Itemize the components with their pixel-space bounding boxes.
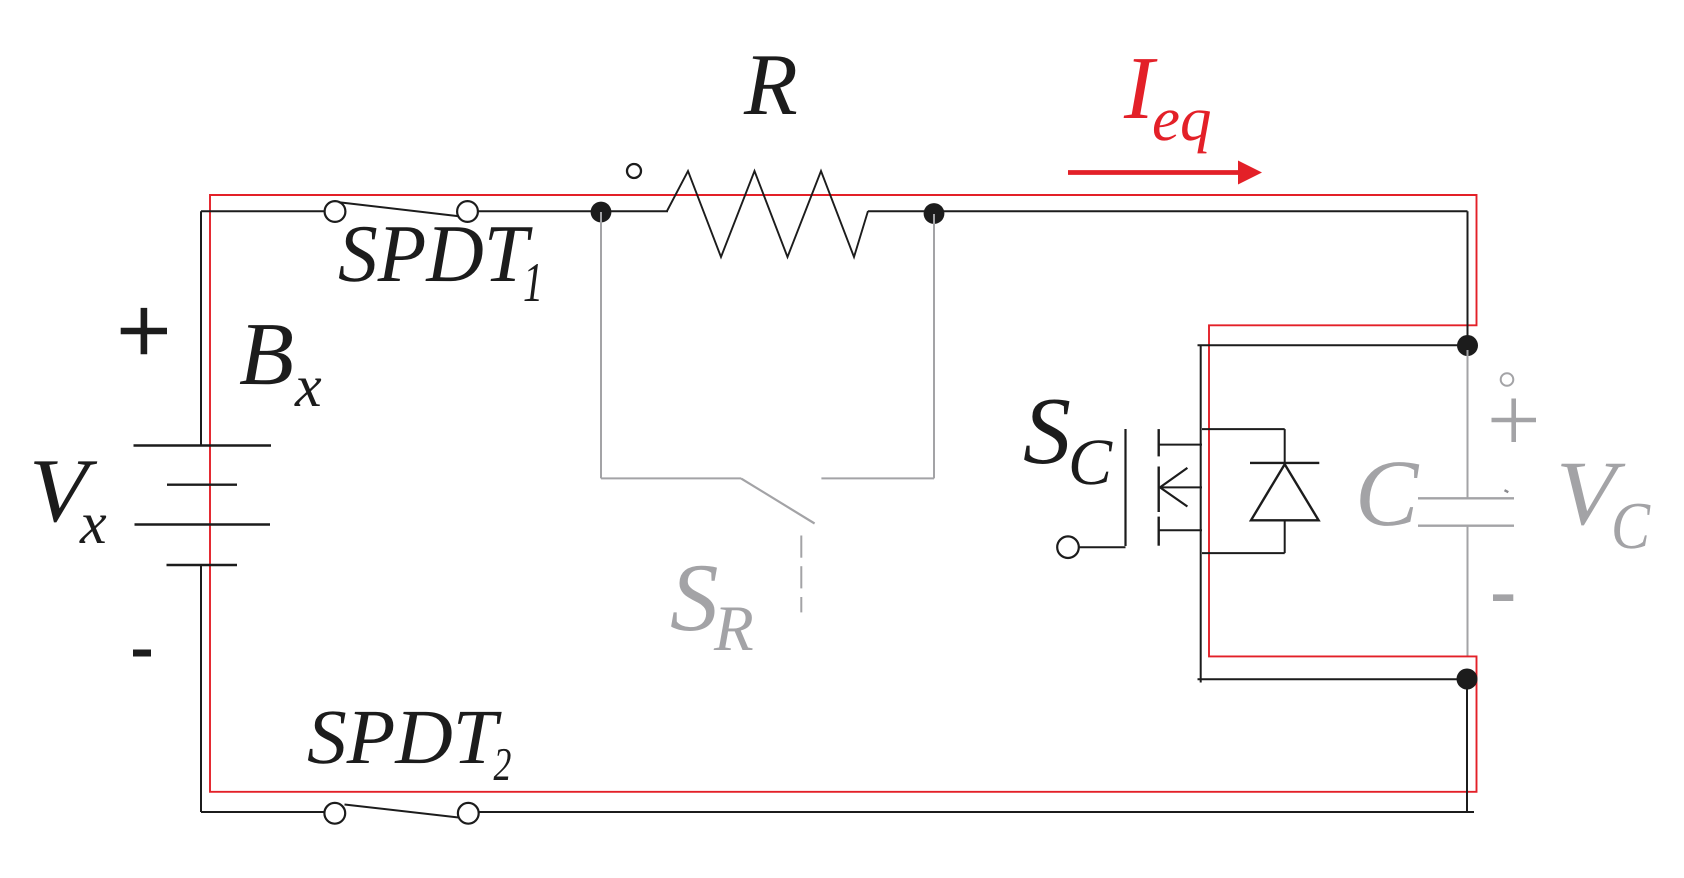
switch SPDT1 throw contact [457, 201, 478, 222]
wire SPDT1 to resistor [478, 210, 668, 212]
resistor R [667, 171, 868, 257]
mosfet SC channel segment bottom [1157, 517, 1159, 546]
svg-text:SPDT: SPDT [307, 693, 502, 780]
switch SPDT1 blade [339, 202, 459, 216]
battery Bx plate long 1 [134, 444, 272, 446]
switch SPDT2 pole contact [324, 803, 345, 824]
body diode triangle [1251, 464, 1319, 520]
mosfet SC drain stub [1159, 444, 1202, 446]
mosfet SC body lead [1161, 486, 1202, 488]
switch SR blade [741, 478, 815, 523]
capacitor C top plate [1418, 497, 1514, 499]
svg-text:S: S [670, 544, 719, 651]
red equivalent-current loop [210, 195, 1477, 792]
wire bottom of mosfet branch [1198, 678, 1468, 680]
gray SR branch left horizontal [601, 477, 741, 479]
switch SPDT1 pole contact [325, 201, 346, 222]
body diode cathode bar [1250, 462, 1319, 464]
node C junction dot [1457, 335, 1478, 356]
node D junction dot [1457, 669, 1478, 690]
battery negative lead [200, 565, 202, 812]
switch SPDT2 throw contact [458, 803, 479, 824]
svg-text:R: R [713, 593, 754, 665]
wire mosfet drain-source bus [1200, 345, 1202, 682]
gray SR branch right vertical [933, 214, 935, 478]
battery Bx plate short 2 [167, 564, 238, 566]
mosfet SC gate lead [1079, 546, 1126, 548]
svg-text:x: x [79, 490, 107, 556]
svg-text:C: C [1611, 489, 1651, 563]
switch SPDT2 blade [345, 805, 459, 818]
label plus of battery [121, 308, 167, 354]
svg-text:C: C [1068, 426, 1113, 499]
gray SR branch left vertical [600, 212, 602, 478]
wire right lower vertical [1466, 679, 1468, 813]
wire resistor to top right corner [868, 210, 1468, 212]
node A junction dot [591, 202, 612, 223]
capacitor C bottom plate [1418, 525, 1514, 527]
mosfet SC source stub [1159, 529, 1202, 531]
mosfet SC channel segment middle [1157, 467, 1159, 513]
svg-text:C: C [1355, 440, 1420, 546]
mosfet SC body arrowhead [1160, 468, 1187, 507]
wire top left horizontal [201, 210, 325, 212]
wire right vertical drop [1467, 211, 1469, 345]
mosfet SC gate terminal circle [1057, 536, 1079, 558]
svg-text:SPDT: SPDT [338, 208, 533, 299]
small gray tick [1505, 490, 1509, 492]
gray open terminal near VC plus [1501, 373, 1514, 386]
body diode cathode drop [1284, 429, 1286, 463]
label minus of VC [1493, 594, 1513, 601]
svg-text:eq: eq [1152, 84, 1211, 154]
switch SR actuation dashed line [800, 536, 802, 613]
node B junction dot [924, 203, 945, 224]
capacitor C bottom lead [1467, 526, 1469, 656]
capacitor C top lead [1467, 350, 1469, 498]
wire bottom left horizontal [201, 811, 325, 813]
svg-text:B: B [239, 305, 294, 404]
svg-text:S: S [1023, 377, 1071, 484]
gray SR branch right horizontal [821, 477, 934, 479]
open terminal above resistor [627, 164, 641, 178]
svg-text:x: x [294, 353, 322, 419]
body diode top lead [1202, 428, 1285, 430]
wire top of mosfet branch [1198, 344, 1468, 346]
svg-text:R: R [743, 37, 798, 134]
mosfet SC gate bar [1124, 429, 1126, 546]
label plus of VC [1492, 399, 1537, 443]
wire SPDT2 to bottom right [479, 811, 1474, 813]
battery positive lead [200, 211, 202, 445]
body diode bottom lead [1202, 552, 1285, 554]
label minus of battery [133, 650, 151, 657]
body diode anode drop [1284, 520, 1286, 553]
battery Bx plate long 2 [135, 523, 271, 525]
current arrow Ieq [1068, 161, 1262, 185]
mosfet SC channel segment top [1157, 429, 1159, 456]
battery Bx plate short 1 [167, 484, 237, 486]
